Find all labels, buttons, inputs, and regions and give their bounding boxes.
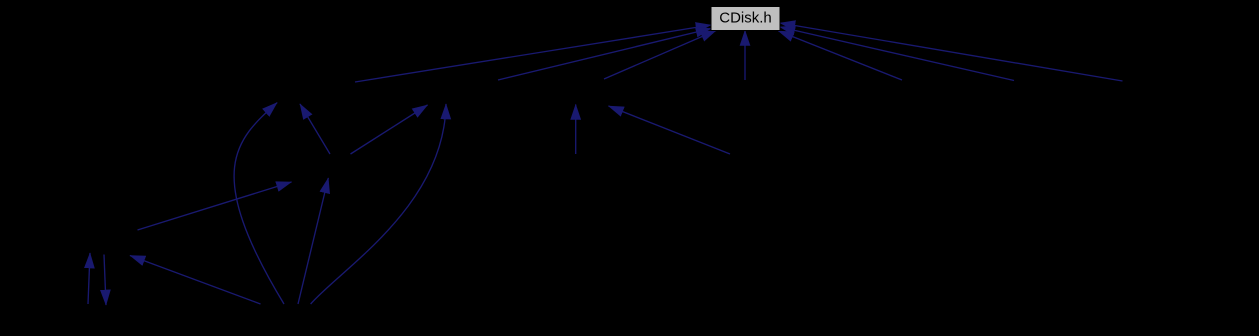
edge N4->CDisk.h — [744, 31, 746, 81]
edge R2c->N1 — [300, 104, 330, 154]
edge R2b->N3 — [575, 105, 577, 155]
edge R2c->N2 — [351, 105, 428, 154]
edge N6->CDisk.h — [780, 27, 1014, 81]
edge N2->CDisk.h — [498, 29, 711, 81]
edge B1->U — [130, 256, 261, 305]
edge B1->N1 (left arc) — [234, 103, 284, 304]
edge W->U — [88, 253, 90, 304]
edge N7->CDisk.h — [780, 23, 1123, 81]
edge N5->CDisk.h — [779, 31, 903, 80]
edge B1->N2 (right arc) — [311, 104, 446, 304]
svg-text:CDisk.h: CDisk.h — [719, 10, 772, 27]
edge R2a->N3 — [609, 106, 731, 154]
edge N1->CDisk.h — [355, 25, 711, 82]
node CDisk.h — [711, 7, 780, 31]
edge U->R2c — [138, 182, 292, 230]
edge B1->R2c — [298, 178, 328, 304]
edge N3->CDisk.h — [604, 31, 716, 80]
edge U->W — [104, 255, 106, 306]
